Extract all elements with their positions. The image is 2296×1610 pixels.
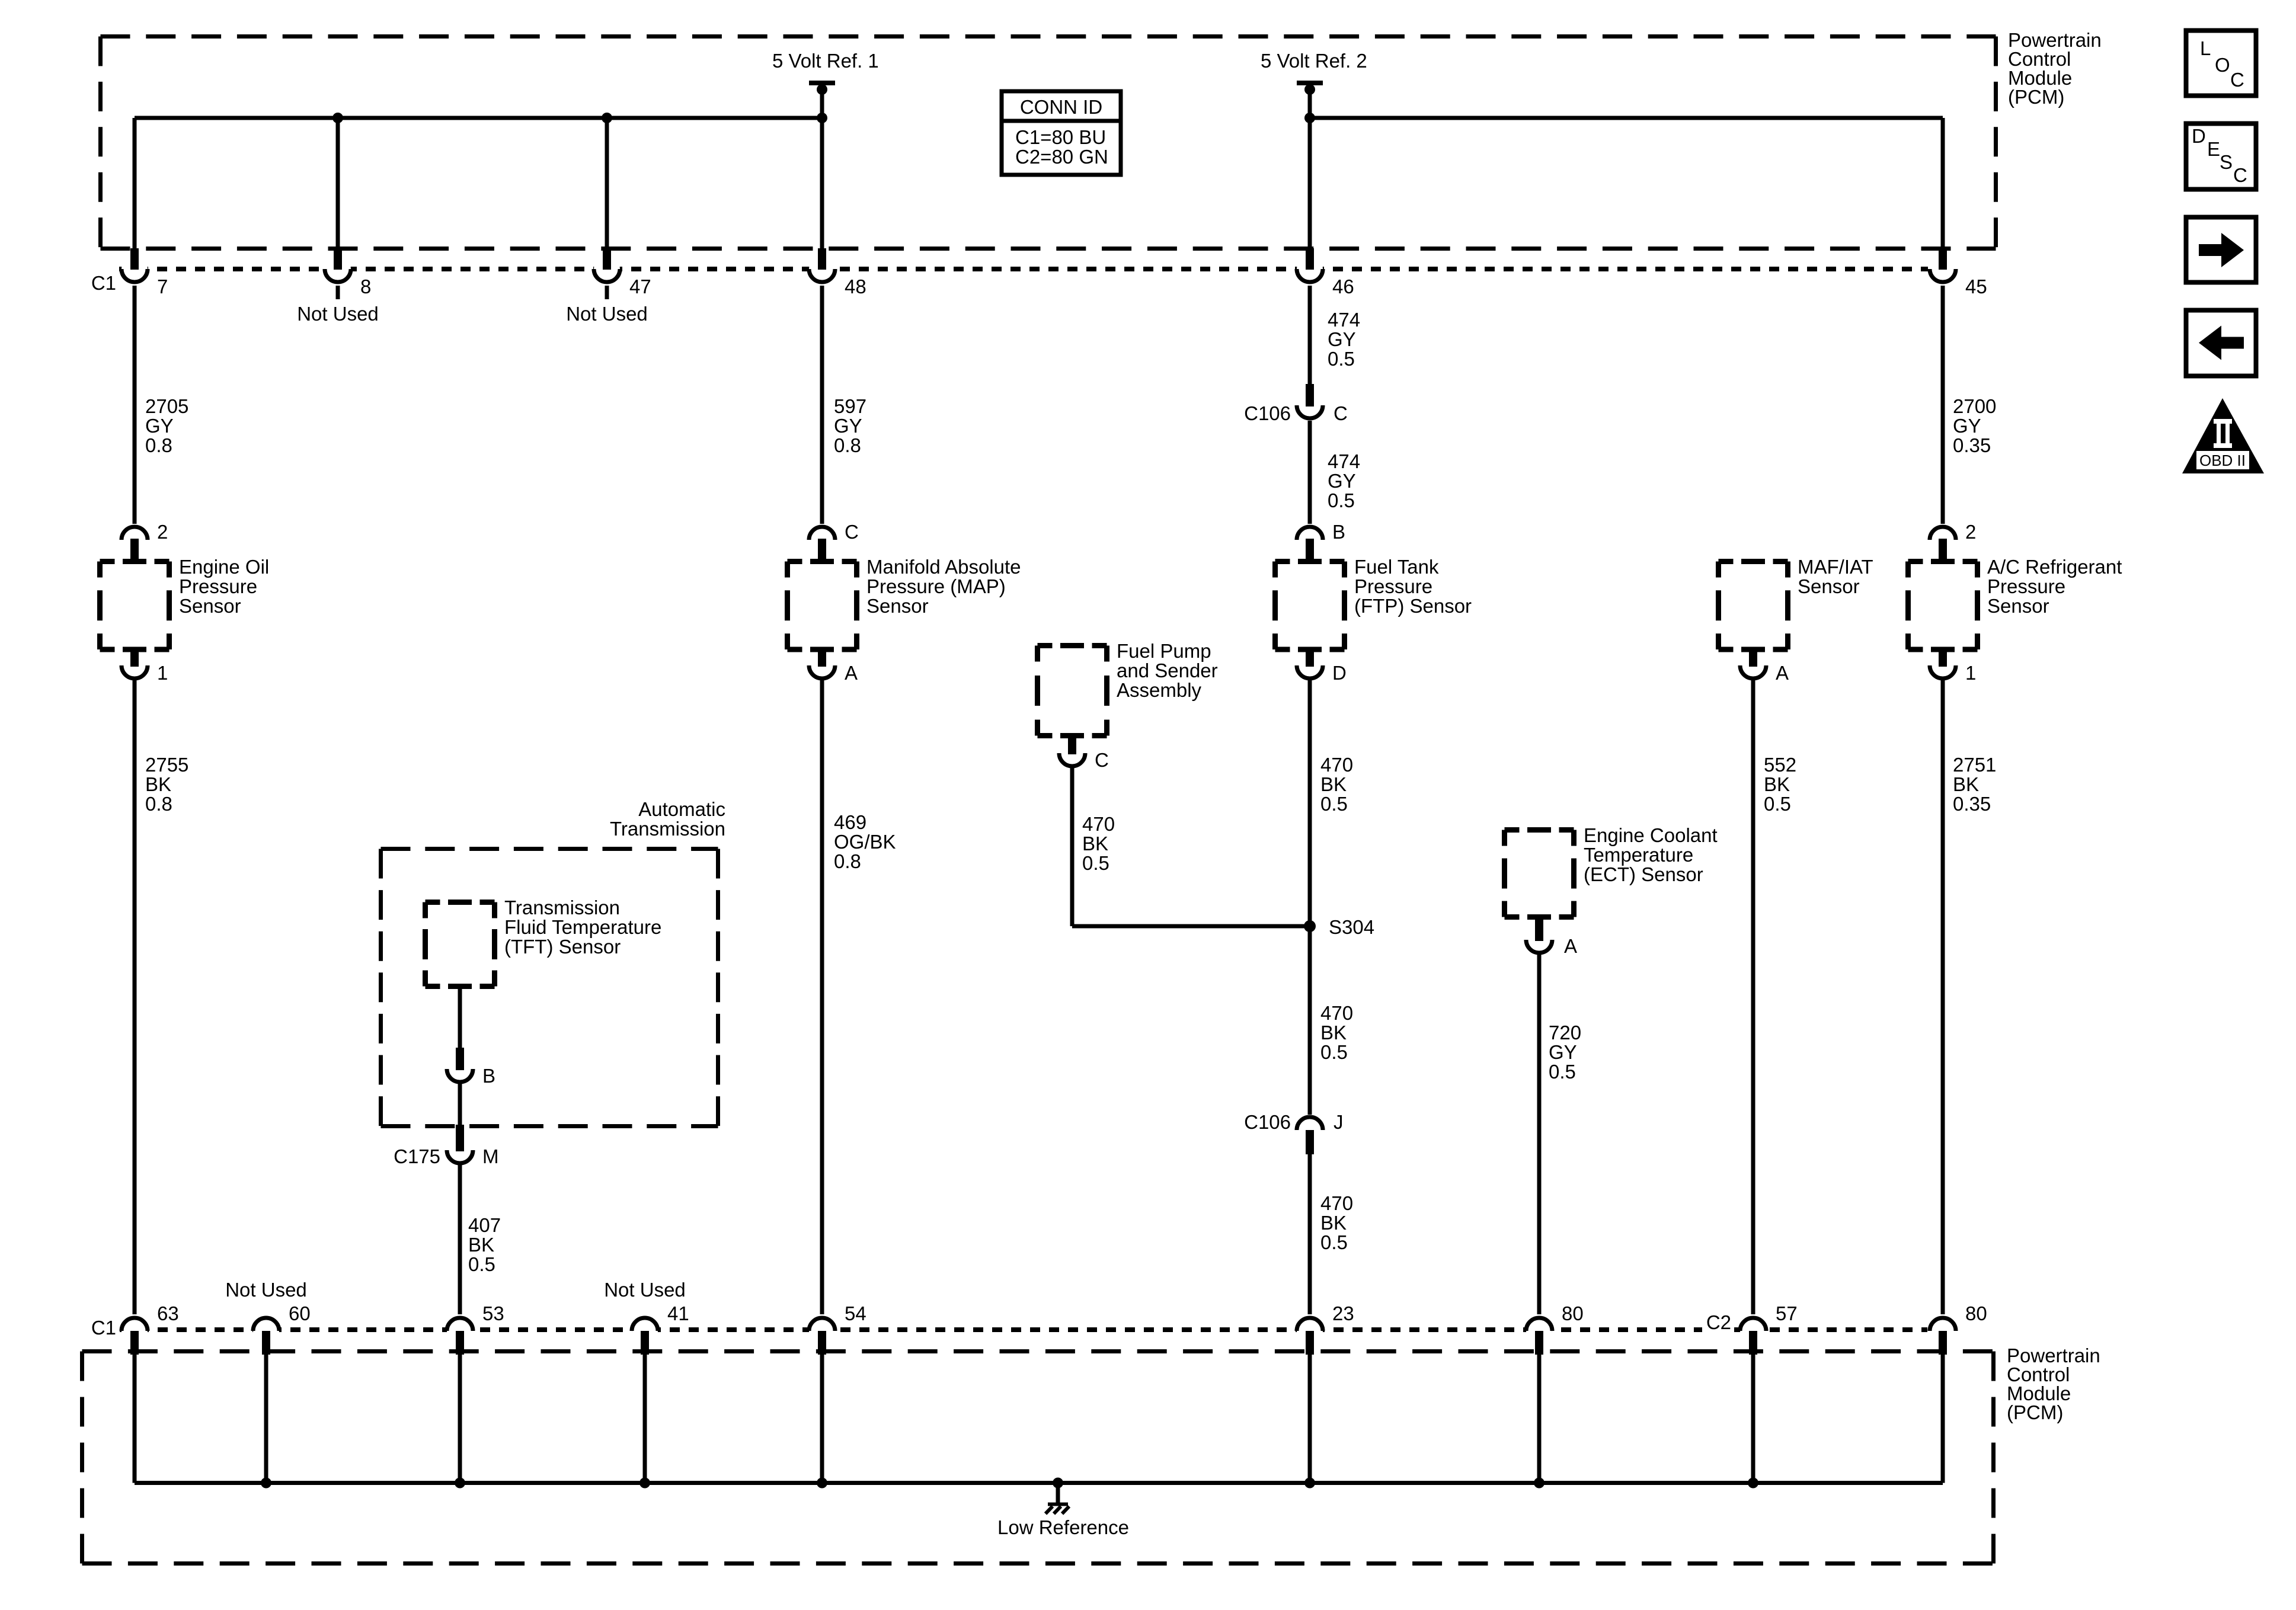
svg-text:Transmission: Transmission bbox=[610, 818, 725, 840]
svg-text:2700: 2700 bbox=[1953, 395, 1996, 417]
svg-text:J: J bbox=[1334, 1111, 1344, 1133]
svg-text:O: O bbox=[2215, 54, 2230, 76]
svg-text:470: 470 bbox=[1082, 813, 1115, 835]
svg-text:BK: BK bbox=[1953, 773, 1979, 795]
svg-text:(TFT) Sensor: (TFT) Sensor bbox=[504, 936, 621, 958]
svg-text:BK: BK bbox=[468, 1234, 494, 1256]
svg-text:47: 47 bbox=[629, 276, 651, 297]
svg-text:1: 1 bbox=[1965, 662, 1976, 684]
svg-text:Not Used: Not Used bbox=[604, 1279, 686, 1301]
svg-text:BK: BK bbox=[145, 773, 171, 795]
svg-text:63: 63 bbox=[157, 1302, 179, 1324]
svg-text:Sensor: Sensor bbox=[1987, 595, 2049, 617]
svg-text:GY: GY bbox=[1953, 415, 1981, 437]
svg-text:GY: GY bbox=[834, 415, 862, 437]
svg-text:(FTP) Sensor: (FTP) Sensor bbox=[1354, 595, 1472, 617]
svg-text:Sensor: Sensor bbox=[1798, 575, 1860, 597]
svg-text:5 Volt Ref. 1: 5 Volt Ref. 1 bbox=[772, 50, 879, 72]
svg-text:470: 470 bbox=[1320, 1192, 1353, 1214]
svg-text:C1: C1 bbox=[91, 272, 116, 294]
svg-text:2751: 2751 bbox=[1953, 754, 1996, 776]
svg-text:C: C bbox=[2230, 69, 2244, 91]
svg-text:Fuel Pump: Fuel Pump bbox=[1117, 640, 1211, 662]
svg-text:BK: BK bbox=[1320, 1022, 1347, 1044]
svg-text:BK: BK bbox=[1320, 1212, 1347, 1234]
svg-text:A: A bbox=[1564, 935, 1577, 957]
svg-text:C106: C106 bbox=[1244, 1111, 1291, 1133]
svg-text:D: D bbox=[2192, 125, 2206, 147]
svg-text:D: D bbox=[1332, 662, 1347, 684]
svg-text:(PCM): (PCM) bbox=[2007, 1401, 2063, 1423]
svg-text:0.5: 0.5 bbox=[1549, 1061, 1576, 1083]
svg-text:0.5: 0.5 bbox=[1320, 1231, 1348, 1253]
svg-text:C: C bbox=[1334, 402, 1348, 424]
svg-text:2: 2 bbox=[157, 521, 168, 543]
svg-text:CONN ID: CONN ID bbox=[1020, 96, 1102, 118]
svg-text:BK: BK bbox=[1764, 773, 1790, 795]
svg-text:597: 597 bbox=[834, 395, 866, 417]
svg-text:0.8: 0.8 bbox=[834, 434, 861, 456]
svg-text:0.5: 0.5 bbox=[1082, 852, 1109, 874]
svg-text:23: 23 bbox=[1332, 1302, 1354, 1324]
svg-text:1: 1 bbox=[157, 662, 168, 684]
svg-text:E: E bbox=[2207, 138, 2220, 160]
svg-text:0.35: 0.35 bbox=[1953, 434, 1991, 456]
svg-text:0.5: 0.5 bbox=[1320, 793, 1348, 815]
svg-text:C: C bbox=[2233, 164, 2247, 186]
svg-text:and Sender: and Sender bbox=[1117, 660, 1218, 681]
svg-text:Sensor: Sensor bbox=[179, 595, 241, 617]
svg-text:0.8: 0.8 bbox=[145, 793, 172, 815]
svg-text:Pressure: Pressure bbox=[1354, 575, 1432, 597]
svg-text:474: 474 bbox=[1328, 309, 1360, 331]
svg-text:57: 57 bbox=[1776, 1302, 1798, 1324]
svg-text:A/C Refrigerant: A/C Refrigerant bbox=[1987, 556, 2122, 578]
svg-text:A: A bbox=[845, 662, 858, 684]
svg-text:OG/BK: OG/BK bbox=[834, 831, 896, 853]
svg-text:C1=80 BU: C1=80 BU bbox=[1015, 126, 1106, 148]
svg-text:7: 7 bbox=[157, 276, 168, 297]
svg-text:Pressure: Pressure bbox=[1987, 575, 2065, 597]
svg-text:Engine Coolant: Engine Coolant bbox=[1584, 824, 1718, 846]
svg-text:469: 469 bbox=[834, 811, 866, 833]
svg-text:(PCM): (PCM) bbox=[2008, 86, 2064, 108]
svg-text:C: C bbox=[1095, 749, 1109, 771]
svg-text:B: B bbox=[1332, 521, 1345, 543]
svg-text:2: 2 bbox=[1965, 521, 1976, 543]
svg-text:C106: C106 bbox=[1244, 402, 1291, 424]
svg-text:41: 41 bbox=[667, 1302, 689, 1324]
svg-text:Temperature: Temperature bbox=[1584, 844, 1693, 866]
svg-text:0.5: 0.5 bbox=[1320, 1041, 1348, 1063]
svg-text:C175: C175 bbox=[394, 1145, 440, 1167]
svg-text:80: 80 bbox=[1965, 1302, 1987, 1324]
svg-text:A: A bbox=[1776, 662, 1789, 684]
svg-text:Fluid Temperature: Fluid Temperature bbox=[504, 916, 661, 938]
svg-text:8: 8 bbox=[360, 276, 371, 297]
svg-text:C: C bbox=[845, 521, 859, 543]
svg-text:B: B bbox=[482, 1065, 495, 1087]
svg-text:MAF/IAT: MAF/IAT bbox=[1798, 556, 1873, 578]
svg-text:0.5: 0.5 bbox=[1328, 348, 1355, 370]
svg-text:L: L bbox=[2200, 37, 2211, 59]
svg-text:GY: GY bbox=[1328, 470, 1356, 492]
svg-text:0.5: 0.5 bbox=[1328, 489, 1355, 511]
svg-text:0.35: 0.35 bbox=[1953, 793, 1991, 815]
svg-text:Not Used: Not Used bbox=[566, 303, 648, 325]
svg-text:470: 470 bbox=[1320, 754, 1353, 776]
svg-text:Automatic: Automatic bbox=[638, 798, 725, 820]
svg-text:BK: BK bbox=[1082, 833, 1108, 854]
svg-text:720: 720 bbox=[1549, 1022, 1581, 1044]
svg-text:0.5: 0.5 bbox=[1764, 793, 1791, 815]
svg-text:2705: 2705 bbox=[145, 395, 188, 417]
svg-text:46: 46 bbox=[1332, 276, 1354, 297]
svg-text:C2: C2 bbox=[1706, 1311, 1731, 1333]
svg-text:S: S bbox=[2220, 151, 2233, 173]
svg-text:C2=80 GN: C2=80 GN bbox=[1015, 146, 1108, 168]
svg-text:Low Reference: Low Reference bbox=[997, 1516, 1129, 1538]
svg-text:0.8: 0.8 bbox=[834, 850, 861, 872]
svg-text:552: 552 bbox=[1764, 754, 1796, 776]
svg-text:474: 474 bbox=[1328, 450, 1360, 472]
svg-text:45: 45 bbox=[1965, 276, 1987, 297]
svg-text:2755: 2755 bbox=[145, 754, 188, 776]
svg-text:Not Used: Not Used bbox=[297, 303, 379, 325]
svg-text:60: 60 bbox=[289, 1302, 311, 1324]
svg-text:0.8: 0.8 bbox=[145, 434, 172, 456]
svg-text:Manifold Absolute: Manifold Absolute bbox=[866, 556, 1021, 578]
svg-text:54: 54 bbox=[845, 1302, 866, 1324]
svg-text:M: M bbox=[482, 1145, 499, 1167]
svg-text:C1: C1 bbox=[91, 1317, 116, 1339]
svg-text:0.5: 0.5 bbox=[468, 1253, 495, 1275]
svg-text:BK: BK bbox=[1320, 773, 1347, 795]
svg-text:Sensor: Sensor bbox=[866, 595, 929, 617]
svg-text:407: 407 bbox=[468, 1214, 501, 1236]
svg-text:OBD II: OBD II bbox=[2199, 452, 2246, 469]
svg-text:Pressure: Pressure bbox=[179, 575, 257, 597]
svg-text:5 Volt Ref. 2: 5 Volt Ref. 2 bbox=[1261, 50, 1367, 72]
svg-text:(ECT) Sensor: (ECT) Sensor bbox=[1584, 863, 1703, 885]
svg-text:53: 53 bbox=[482, 1302, 504, 1324]
svg-text:Not Used: Not Used bbox=[225, 1279, 307, 1301]
svg-text:Transmission: Transmission bbox=[504, 897, 620, 918]
svg-text:470: 470 bbox=[1320, 1002, 1353, 1024]
svg-text:Fuel Tank: Fuel Tank bbox=[1354, 556, 1439, 578]
svg-text:GY: GY bbox=[1549, 1041, 1577, 1063]
svg-text:48: 48 bbox=[845, 276, 866, 297]
svg-text:80: 80 bbox=[1562, 1302, 1584, 1324]
svg-text:GY: GY bbox=[145, 415, 174, 437]
svg-text:Assembly: Assembly bbox=[1117, 679, 1202, 701]
svg-text:GY: GY bbox=[1328, 328, 1356, 350]
svg-text:S304: S304 bbox=[1329, 916, 1374, 938]
svg-text:Engine Oil: Engine Oil bbox=[179, 556, 269, 578]
svg-text:Pressure (MAP): Pressure (MAP) bbox=[866, 575, 1006, 597]
